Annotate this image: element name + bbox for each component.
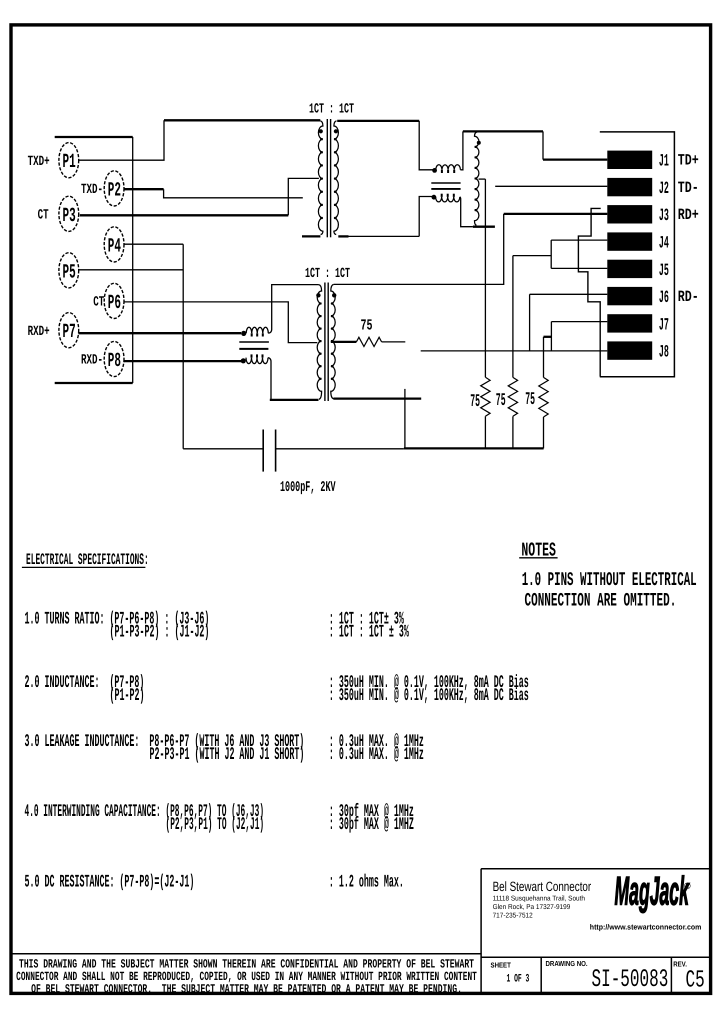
wire to J4 [551, 239, 607, 241]
wire staircase J3 hook to connector corner [578, 208, 600, 376]
svg-text:RD-: RD- [678, 288, 699, 306]
wire T1 sec top to choke L1 [337, 120, 419, 122]
choke L3 top coil [246, 327, 268, 333]
svg-text:J3: J3 [659, 207, 669, 226]
svg-text:ELECTRICAL SPECIFICATIONS:: ELECTRICAL SPECIFICATIONS: [26, 551, 149, 569]
wire termination bus (thick) [404, 447, 544, 449]
T1 secondary polarity dot [334, 129, 338, 133]
wire to J5 [551, 267, 607, 269]
pin P8 [104, 341, 124, 376]
wire termination line to J8 [421, 350, 608, 352]
svg-text:(P1-P3-P2) : (J1-J2): (P1-P3-P2) : (J1-J2) [110, 623, 210, 643]
svg-text:CT: CT [93, 295, 104, 311]
connector pin J7 [607, 314, 652, 332]
svg-text:RD+: RD+ [678, 206, 699, 224]
svg-text:P8: P8 [108, 350, 121, 373]
wire cap to bus [276, 448, 404, 450]
wire P-frame right bus [132, 137, 134, 383]
choke L1 bottom coil [436, 197, 460, 202]
choke L3 bottom coil [246, 358, 268, 364]
wire shield to C1 [183, 448, 262, 450]
svg-text:1CT : 1CT: 1CT : 1CT [305, 266, 350, 282]
svg-text:75: 75 [470, 392, 480, 412]
resistor R4 75 (horizontal) [356, 337, 381, 346]
svg-text:J2: J2 [659, 180, 669, 199]
wire to J2 [495, 185, 607, 187]
svg-text:1CT : 1CT: 1CT : 1CT [309, 102, 354, 118]
svg-text:DRAWING NO.: DRAWING NO. [546, 959, 588, 968]
wire T2 sec bottom [334, 397, 422, 399]
choke L1 top coil [436, 165, 461, 170]
resistor R1 75 [481, 377, 490, 416]
T1 primary winding [318, 121, 323, 235]
svg-text:J8: J8 [659, 344, 669, 363]
svg-text:SHEET: SHEET [491, 961, 512, 970]
svg-text:P2-P3-P1 (WITH J2 AND J1 SHORT: P2-P3-P1 (WITH J2 AND J1 SHORT) [150, 745, 305, 765]
svg-text:TD-: TD- [678, 179, 699, 197]
wire P3 (CT) thick [80, 214, 288, 216]
L1 core line 1 [431, 182, 460, 184]
svg-text:(P2,P3,P1) TO (J2,J1): (P2,P3,P1) TO (J2,J1) [166, 815, 265, 835]
T1 secondary bottom stub [338, 235, 348, 237]
svg-text:1 OF 3: 1 OF 3 [507, 974, 530, 986]
L3 core line 1 [239, 341, 269, 343]
wire R2 tap [513, 255, 551, 257]
svg-text:Bel Stewart Connector: Bel Stewart Connector [493, 879, 592, 894]
svg-text:TXD+: TXD+ [28, 154, 50, 170]
title block top edge [481, 868, 710, 870]
R1 bottom lead [484, 416, 486, 448]
wire L3 top out to T2 [268, 285, 318, 334]
svg-text:P2: P2 [108, 179, 121, 202]
connector pin J5 [607, 260, 652, 278]
connector pin J3 [607, 205, 652, 223]
svg-text:RXD-: RXD- [81, 353, 103, 369]
svg-text:Glen Rock, Pa 17327-9199: Glen Rock, Pa 17327-9199 [493, 903, 571, 911]
wire to J7 [551, 321, 607, 323]
connector pin J4 [607, 232, 652, 250]
L1 core line 2 [431, 188, 460, 190]
wire to J6 [530, 293, 608, 295]
T2 secondary polarity dot [332, 293, 336, 297]
wire stub to L2 bottom [473, 226, 495, 228]
svg-text:: 30pf MAX @ 1MHZ: : 30pf MAX @ 1MHZ [329, 815, 414, 835]
wire P7 (thick) [78, 332, 241, 334]
wire T1 primary top [164, 119, 320, 121]
svg-text:MagJack: MagJack [615, 870, 690, 914]
resistor R3 75 [539, 377, 548, 417]
svg-text:717-235-7512: 717-235-7512 [493, 913, 533, 920]
disclaimer box top [11, 953, 481, 955]
wire J7-J8 tie [550, 322, 552, 351]
wire J4-J5 tie [550, 240, 552, 268]
T1 core line 2 [330, 119, 332, 237]
connector pin J6 [607, 287, 652, 305]
R3 bottom lead [543, 417, 545, 448]
wire down to L1 top coil [419, 121, 433, 170]
pin P7 [59, 313, 79, 348]
wire T2 sec center tap [331, 341, 357, 343]
svg-text:1.0 PINS WITHOUT ELECTRICAL: 1.0 PINS WITHOUT ELECTRICAL [522, 569, 697, 591]
L1 bottom coil dot [432, 195, 437, 200]
L3 bottom coil dot [241, 358, 246, 363]
T2 core line 2 [327, 283, 329, 402]
connector J outline box [600, 132, 675, 377]
svg-text:75: 75 [525, 390, 535, 410]
svg-text:OF BEL STEWART CONNECTOR. THE: OF BEL STEWART CONNECTOR. THE SUBJECT MA… [31, 982, 462, 996]
wire R4 lead [382, 341, 406, 343]
svg-text:P3: P3 [63, 205, 76, 228]
wire P-frame top [55, 136, 133, 138]
pin P1 [59, 143, 79, 178]
wire P5 [78, 269, 183, 271]
svg-text:RXD+: RXD+ [28, 324, 50, 340]
svg-text:P4: P4 [108, 235, 121, 258]
L1 top coil dot [432, 168, 437, 173]
svg-text:SI-50083: SI-50083 [592, 965, 669, 994]
T2 core line 1 [324, 283, 326, 402]
L2 center tap lead [479, 178, 486, 180]
wire L1 bottom out down [460, 197, 473, 227]
svg-text:: 1.2 ohms Max.: : 1.2 ohms Max. [329, 873, 404, 893]
svg-text:11118 Susquehanna Trail, South: 11118 Susquehanna Trail, South [493, 894, 585, 902]
svg-text:C5: C5 [686, 968, 705, 995]
wire to T2 primary bottom [270, 399, 319, 401]
svg-text:J1: J1 [659, 153, 669, 172]
svg-text:P1: P1 [63, 151, 76, 174]
svg-text:CT: CT [38, 208, 49, 224]
svg-text:REV.: REV. [673, 959, 687, 968]
svg-text:J6: J6 [659, 289, 669, 308]
wire P4/P5 shield down to C1 [182, 244, 184, 449]
pin P2 [104, 171, 124, 206]
connector pin J1 [607, 151, 652, 169]
svg-text:75: 75 [361, 317, 373, 335]
wire into J1 [543, 158, 607, 160]
pin P4 [104, 227, 124, 262]
spec heading underline [22, 566, 145, 568]
wire T1 sec bottom to L1 [349, 235, 420, 237]
wire P6 to T2 center tap [124, 302, 317, 343]
wire L2 center tap down to R1 [484, 179, 486, 377]
wire P2 step to T1 [164, 189, 303, 198]
wire J6 jog down [529, 294, 531, 351]
svg-text:http://www.stewartconnector.co: http://www.stewartconnector.com [590, 922, 702, 931]
wire up to L1 bottom coil [419, 197, 433, 237]
T2 secondary winding [331, 284, 335, 398]
wire L1 top out up [460, 131, 463, 169]
svg-text:TD+: TD+ [678, 152, 699, 170]
T1 core line 1 [326, 119, 328, 237]
title block divider 1 [540, 957, 542, 993]
svg-text:75: 75 [496, 391, 506, 411]
wire R2 feed down [512, 256, 514, 378]
svg-text:J5: J5 [659, 262, 669, 281]
title block left edge [480, 869, 482, 994]
L3 core line 2 [239, 348, 268, 350]
L2 polarity dot [477, 141, 481, 145]
wire P2 (thick) [124, 188, 164, 190]
svg-text:(P1-P2): (P1-P2) [110, 686, 145, 706]
T1 secondary winding [334, 121, 339, 235]
wire P4 [124, 243, 183, 245]
resistor R2 75 [508, 377, 517, 416]
svg-text:CONNECTION ARE OMITTED.: CONNECTION ARE OMITTED. [525, 589, 677, 611]
svg-text:P6: P6 [108, 292, 121, 315]
winding L2 (line side, center-tapped) [475, 132, 479, 225]
svg-text:5.0 DC RESISTANCE: (P7-P8)=(J2: 5.0 DC RESISTANCE: (P7-P8)=(J2-J1) [25, 873, 195, 893]
wire P-frame bottom [55, 382, 133, 384]
R2 bottom lead [512, 416, 514, 448]
pin P5 [59, 253, 79, 288]
connector pin J8 [607, 341, 652, 359]
wire R3 tap (thick) [544, 336, 552, 338]
T1 primary polarity dot [319, 129, 323, 133]
wire R3 feed down [543, 337, 545, 378]
svg-text:J7: J7 [659, 316, 669, 335]
wire P1 to T1 [78, 120, 164, 160]
wire T2 sec top toward J3 [334, 214, 504, 285]
wire L3 bottom out down [268, 358, 271, 400]
wire to J1 step (top) [463, 130, 543, 132]
svg-text:TXD-: TXD- [81, 182, 103, 198]
svg-text:P5: P5 [63, 261, 76, 284]
svg-text:®: ® [684, 881, 691, 891]
svg-text:1000pF, 2KV: 1000pF, 2KV [280, 480, 336, 496]
connector pin J2 [607, 178, 652, 196]
pin P6 [104, 283, 124, 318]
pin P3 [59, 196, 79, 231]
svg-text:: 350uH MIN. @ 0.1V, 100KHz, 8: : 350uH MIN. @ 0.1V, 100KHz, 8mA DC Bias [329, 686, 529, 706]
title block divider 2 [670, 957, 672, 993]
svg-text:J4: J4 [659, 235, 669, 254]
T1 primary bottom stub [302, 235, 320, 237]
svg-text:: 1CT : 1CT ± 3%: : 1CT : 1CT ± 3% [329, 623, 409, 643]
wire P3 to T1 center tap [288, 178, 319, 215]
svg-text:P7: P7 [63, 321, 76, 344]
capacitor C1 1000pF 2KV [262, 430, 264, 472]
title block row divider [481, 956, 710, 958]
wire into J3 [504, 213, 608, 215]
wire J1 step down [542, 131, 544, 159]
T2 primary winding [317, 285, 321, 400]
wire P8 (thick) [124, 360, 242, 362]
svg-text:: 0.3uH MAX. @ 1MHz: : 0.3uH MAX. @ 1MHz [329, 745, 424, 765]
wire T2 bottom to bus [404, 389, 406, 448]
T2 primary polarity dot [316, 293, 320, 297]
L3 top coil dot [241, 331, 246, 336]
notes heading underline [519, 557, 557, 559]
